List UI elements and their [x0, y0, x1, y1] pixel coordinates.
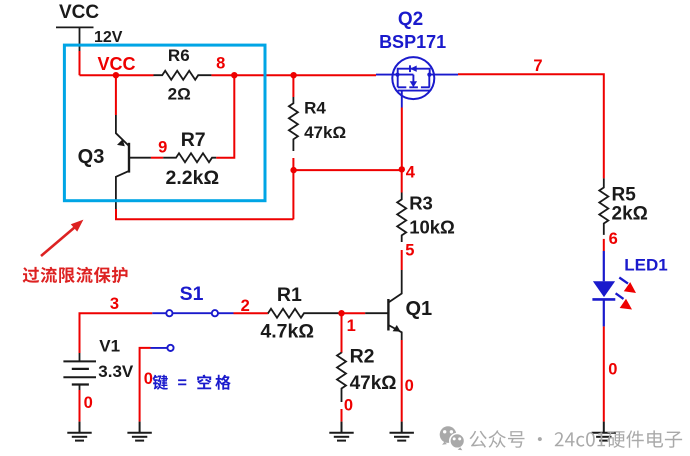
svg-text:Q3: Q3	[78, 146, 105, 168]
svg-text:7: 7	[533, 57, 542, 75]
svg-text:2.2kΩ: 2.2kΩ	[166, 167, 220, 189]
svg-text:8: 8	[216, 54, 225, 72]
svg-text:47kΩ: 47kΩ	[350, 373, 397, 394]
svg-text:4.7kΩ: 4.7kΩ	[260, 320, 314, 342]
svg-text:0: 0	[144, 370, 153, 388]
svg-text:Q2: Q2	[398, 9, 423, 30]
svg-text:R7: R7	[181, 129, 206, 151]
svg-text:R1: R1	[277, 284, 302, 306]
svg-text:0: 0	[84, 394, 93, 412]
svg-text:3.3V: 3.3V	[98, 362, 134, 381]
svg-text:R2: R2	[350, 346, 375, 368]
svg-text:R6: R6	[168, 46, 190, 65]
svg-text:BSP171: BSP171	[379, 32, 446, 52]
svg-text:2Ω: 2Ω	[168, 85, 191, 104]
svg-text:3: 3	[110, 295, 119, 313]
svg-text:0: 0	[344, 396, 353, 414]
svg-text:LED1: LED1	[624, 256, 667, 275]
svg-text:2kΩ: 2kΩ	[612, 203, 648, 224]
svg-text:9: 9	[158, 138, 167, 156]
svg-text:6: 6	[609, 230, 618, 248]
svg-text:VCC: VCC	[97, 54, 135, 74]
svg-text:0: 0	[608, 361, 617, 379]
svg-text:Q1: Q1	[406, 298, 433, 320]
svg-text:0: 0	[405, 377, 414, 395]
svg-text:12V: 12V	[94, 29, 123, 46]
svg-text:4: 4	[406, 163, 416, 181]
svg-text:5: 5	[405, 241, 414, 259]
svg-text:S1: S1	[180, 283, 204, 305]
svg-text:2: 2	[241, 297, 250, 315]
svg-text:1: 1	[347, 317, 356, 335]
svg-text:V1: V1	[99, 337, 120, 356]
svg-text:R4: R4	[304, 98, 326, 117]
svg-text:47kΩ: 47kΩ	[304, 123, 346, 142]
svg-text:R3: R3	[409, 193, 433, 214]
svg-text:VCC: VCC	[59, 2, 99, 23]
svg-text:10kΩ: 10kΩ	[409, 216, 455, 237]
